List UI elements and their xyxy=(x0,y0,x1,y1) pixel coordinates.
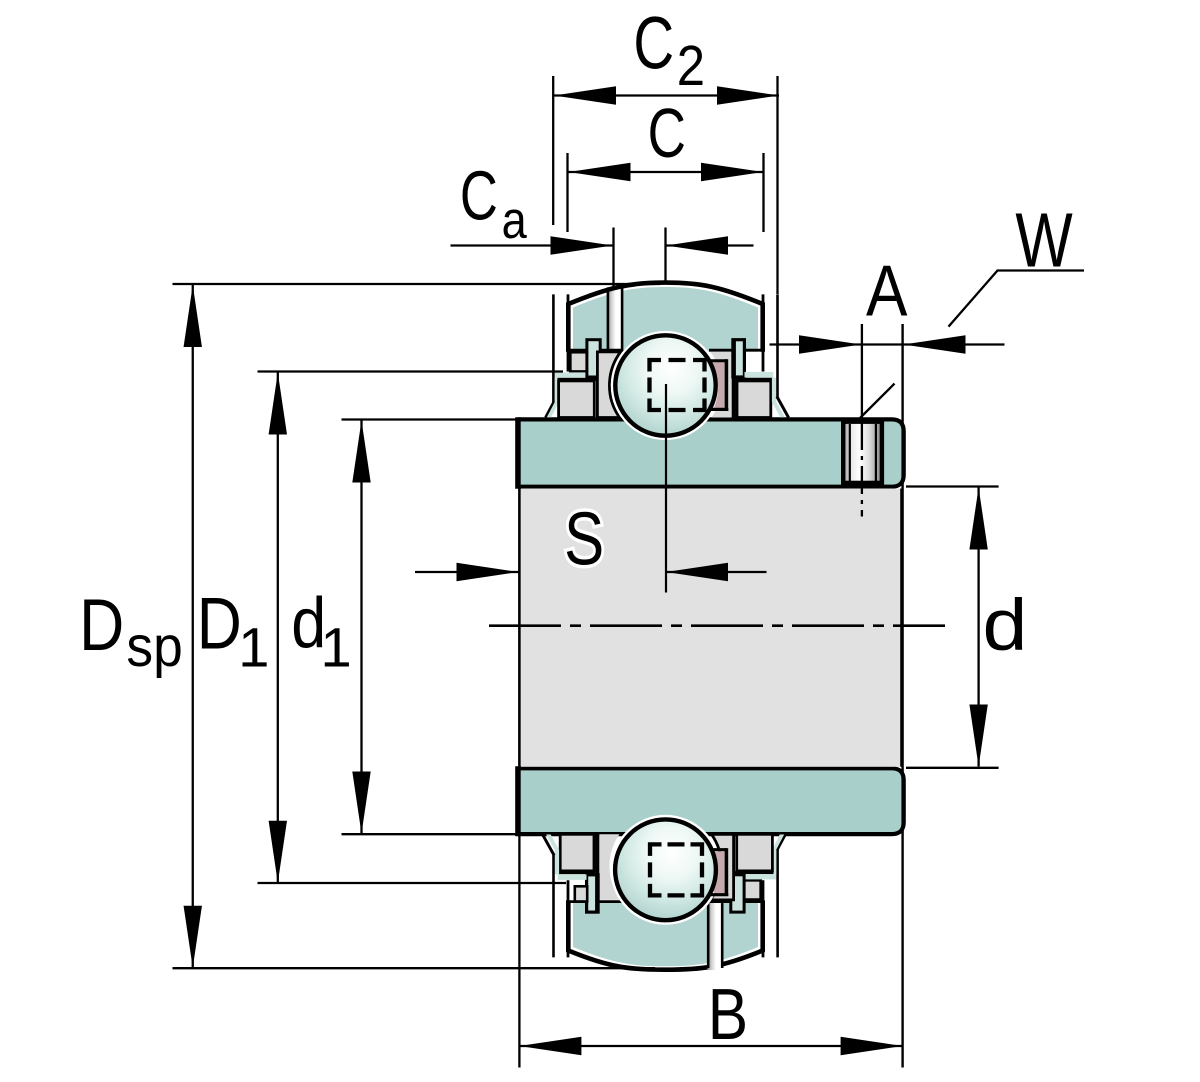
seal left: flinger vertical xyxy=(776,849,779,957)
seal left: horizontal flinger strip xyxy=(740,874,776,879)
seal left: horizontal flinger strip xyxy=(555,372,591,377)
lubrication slot bottom xyxy=(708,903,723,971)
ball top xyxy=(615,335,715,435)
seal right: outer ring side face line xyxy=(762,294,765,371)
seal right: lower gray block xyxy=(560,834,594,871)
seal left: flinger flare xyxy=(546,402,555,418)
seal left: inner ring land block (ball side) xyxy=(597,352,620,418)
inner ring shoulder line xyxy=(568,349,622,352)
seal left: flinger vertical xyxy=(552,294,555,402)
ball load zone square top (dashed) xyxy=(650,360,705,410)
seal left: outer ring side face line xyxy=(567,294,570,371)
inner ring bottom band xyxy=(517,768,903,834)
svg-text:D: D xyxy=(79,584,124,666)
inner ring top band xyxy=(517,419,903,486)
inner ring shoulder line xyxy=(709,900,763,903)
svg-text:2: 2 xyxy=(677,34,705,97)
dim Dsp xyxy=(192,285,194,968)
set screw xyxy=(843,422,882,483)
seal right: flinger vertical + flare xyxy=(546,835,559,875)
svg-text:C: C xyxy=(648,95,686,173)
svg-text:a: a xyxy=(502,192,528,250)
seal left: upper gray step xyxy=(741,880,761,899)
seal left: lower gray block xyxy=(559,381,595,418)
dim B xyxy=(519,1045,902,1047)
set screw leader xyxy=(860,384,895,418)
lubrication slot top xyxy=(607,287,623,352)
ball load zone square bottom (dashed) xyxy=(650,844,702,895)
dim A xyxy=(770,343,1005,345)
svg-text:B: B xyxy=(708,975,748,1055)
seal lip rubber top (pink) xyxy=(712,362,724,407)
seal left: outer ring side face line xyxy=(762,880,765,957)
svg-text:d: d xyxy=(983,584,1028,665)
seal left: lower gray block xyxy=(737,834,773,871)
svg-text:C: C xyxy=(633,1,674,84)
seal right: horizontal strip xyxy=(558,874,587,880)
dim Ca xyxy=(451,244,613,246)
svg-text:1: 1 xyxy=(238,617,269,679)
svg-text:D: D xyxy=(197,584,242,665)
seal right: retainer piece xyxy=(733,340,745,377)
center axis line xyxy=(489,624,945,627)
seal right: flinger vertical + flare xyxy=(772,378,785,418)
svg-text:A: A xyxy=(866,251,908,331)
dim S xyxy=(415,571,519,573)
svg-text:sp: sp xyxy=(126,614,182,678)
seal right: gray land block xyxy=(710,352,731,418)
dim C xyxy=(569,171,764,173)
seal left: upper gray step xyxy=(570,352,590,371)
shaft bore xyxy=(521,489,900,767)
dim C2 xyxy=(554,94,779,96)
seal left: seal retainer piece xyxy=(731,875,744,912)
dim D1 xyxy=(277,373,279,883)
bottom seal structure (180deg rotated copy) xyxy=(542,834,785,957)
ball pitch line xyxy=(665,384,667,593)
seal lip rubber bottom (pink) xyxy=(709,851,724,893)
seal left: flinger flare xyxy=(777,834,786,850)
seal right: outer ring side face line xyxy=(567,880,570,957)
svg-text:W: W xyxy=(1015,196,1073,283)
outer ring top (sectioned, spherical OD) xyxy=(573,287,758,352)
svg-text:S: S xyxy=(564,498,604,581)
seal right: horizontal strip xyxy=(745,372,774,378)
outer ring bottom (sectioned, spherical OD) xyxy=(573,900,758,966)
dim d1 xyxy=(360,421,362,834)
dim d xyxy=(977,488,979,767)
ball bottom xyxy=(615,819,716,920)
seal left: inner ring land block (ball side) xyxy=(710,834,733,900)
seal bottom-left: small gray step xyxy=(575,886,587,901)
dim W leader xyxy=(949,271,1085,327)
seal left: seal retainer piece xyxy=(587,340,600,377)
seal right: gray land block xyxy=(599,834,620,900)
seal right: retainer piece xyxy=(587,875,599,912)
svg-text:C: C xyxy=(460,158,498,236)
svg-text:1: 1 xyxy=(321,617,352,679)
seal right: lower gray block xyxy=(737,381,771,418)
